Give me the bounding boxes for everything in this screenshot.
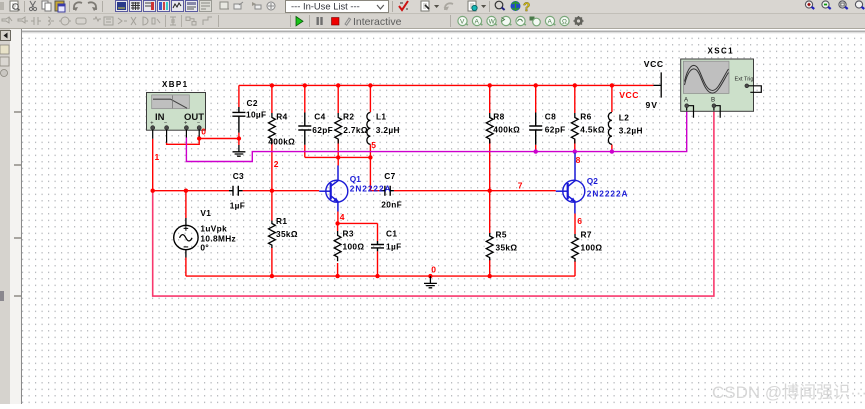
wire node1 horizontal [153, 139, 229, 191]
svg-text:R3: R3 [343, 229, 354, 239]
source V1 [174, 218, 198, 258]
resistor R6 [571, 113, 578, 144]
svg-text:C1: C1 [386, 229, 397, 239]
inductor L2 [608, 113, 612, 145]
svg-text:--- In-Use List ---: --- In-Use List --- [291, 1, 360, 12]
svg-text:1: 1 [155, 152, 160, 162]
row1 framed icon group [116, 1, 276, 12]
label R8 [493, 112, 520, 135]
svg-text:Q2: Q2 [587, 176, 598, 186]
junction top rail L2 [610, 83, 614, 87]
svg-text:4.5kΩ: 4.5kΩ [580, 124, 605, 134]
svg-text:R4: R4 [276, 112, 287, 122]
wire net VCC top rail [239, 84, 654, 86]
label R7 [581, 230, 603, 253]
svg-text:L1: L1 [376, 112, 386, 122]
junction node4 emitter [335, 221, 339, 225]
svg-text:W: W [489, 19, 496, 26]
svg-text:V: V [460, 19, 465, 26]
wire R5 leads [489, 191, 491, 276]
capacitor C3 [229, 186, 243, 196]
row2 component icons (gray) [2, 17, 160, 25]
resistor R4 [269, 113, 276, 144]
svg-text:3.2µH: 3.2µH [619, 125, 643, 135]
label R1 [276, 216, 298, 239]
junction node5 L1 [368, 155, 372, 159]
junction node1 XBP IN [151, 189, 155, 193]
run controls [290, 15, 291, 27]
junction top rail R6 [573, 83, 577, 87]
junction top rail C8 [534, 83, 538, 87]
wire R7 leads [574, 214, 576, 277]
label R3 [343, 229, 365, 252]
wire L2 leads [611, 85, 613, 151]
svg-text:C2: C2 [247, 98, 258, 108]
svg-text:L2: L2 [619, 112, 629, 122]
label R2 [343, 112, 368, 135]
In-Use List combo [286, 1, 389, 13]
label C7 [381, 171, 402, 209]
svg-text:20nF: 20nF [381, 199, 402, 209]
wire Q1 collector red part [337, 157, 339, 165]
svg-text:2N2222A: 2N2222A [350, 183, 392, 193]
svg-text:+: + [184, 120, 187, 126]
svg-text:C3: C3 [233, 171, 244, 181]
svg-text:R7: R7 [581, 230, 592, 240]
wire V1 leads [185, 191, 187, 276]
svg-text:35kΩ: 35kΩ [276, 229, 298, 239]
svg-text:Ω: Ω [562, 19, 567, 26]
wire R4 vertical [271, 85, 273, 190]
junction bus R3 [335, 274, 339, 278]
instrument XBP1 bode plotter [147, 93, 206, 143]
resistor R3 [334, 231, 341, 261]
svg-text:XBP1: XBP1 [162, 80, 189, 89]
svg-text:35kΩ: 35kΩ [496, 243, 518, 253]
wire R6 leads [574, 85, 576, 151]
svg-text:0°: 0° [200, 243, 209, 253]
resistor R1 [269, 221, 276, 249]
junction top rail R4 [270, 83, 274, 87]
label Q2 [587, 176, 629, 199]
svg-text:R5: R5 [496, 230, 507, 240]
svg-text:0: 0 [431, 264, 436, 274]
junction top rail R2 [336, 83, 340, 87]
wire L1 leads [369, 85, 371, 157]
svg-text:R6: R6 [580, 112, 591, 122]
svg-text:62pF: 62pF [312, 125, 333, 135]
label R5 [496, 230, 518, 253]
svg-text:6: 6 [577, 216, 582, 226]
instrument XSC1 oscilloscope [681, 59, 762, 118]
svg-text:1uVpk: 1uVpk [200, 223, 227, 233]
wire R8 vertical [489, 85, 491, 190]
label C2 [246, 98, 266, 120]
left panel strip [0, 29, 22, 404]
svg-text:V1: V1 [200, 208, 211, 218]
label L2 [619, 112, 643, 135]
svg-text:C7: C7 [384, 171, 395, 181]
wire pink node1 to scope B [153, 111, 714, 297]
junction node7 R8 [488, 189, 492, 193]
junction node0 C2 [237, 136, 241, 140]
svg-text:R1: R1 [276, 216, 287, 226]
capacitor C1 [371, 241, 384, 251]
svg-text:C8: C8 [545, 112, 556, 122]
svg-text:1µF: 1µF [230, 200, 246, 210]
label Q1 [350, 174, 392, 194]
svg-text:−: − [197, 120, 200, 126]
junction net8 R6 Q2 collector [573, 149, 577, 153]
label R4 [268, 112, 295, 147]
junction bus C1 [375, 274, 379, 278]
wire C1 bottom lead [377, 251, 379, 276]
svg-text:5: 5 [371, 140, 376, 150]
transistor Q2 [556, 153, 585, 214]
svg-text:2.7kΩ: 2.7kΩ [343, 125, 368, 135]
junction net8 L2 [610, 149, 614, 153]
resistor R8 [486, 113, 493, 144]
ground at bus [424, 276, 437, 288]
svg-text:A: A [548, 19, 553, 26]
svg-text:2N2222A: 2N2222A [587, 189, 629, 199]
row1 left icons [0, 1, 103, 12]
wire node0 stub XBP1 [167, 133, 239, 145]
VCC power symbol [654, 72, 662, 97]
capacitor C4 [298, 113, 311, 145]
inductor L1 [367, 113, 371, 145]
svg-text:VCC: VCC [619, 90, 639, 100]
junction bus R5 [488, 274, 492, 278]
resistor R7 [572, 234, 579, 262]
transistor Q1 [319, 166, 348, 212]
CSDN watermark [712, 378, 865, 398]
svg-text:100Ω: 100Ω [581, 243, 603, 253]
label C8 [545, 112, 566, 135]
instrument probe icons [450, 15, 451, 27]
label L1 [376, 112, 400, 135]
wire node2 C3 to Q1 base [243, 190, 320, 192]
junction node1 V1 [184, 189, 188, 193]
wire R2 leads [337, 85, 339, 157]
row1 right icons [399, 0, 530, 14]
wire R3 leads [337, 223, 339, 276]
junction bus ground [428, 274, 432, 278]
svg-text:XSC1: XSC1 [708, 47, 735, 56]
svg-text:B: B [711, 97, 715, 104]
junction top rail R8 [488, 83, 492, 87]
svg-text:9V: 9V [646, 100, 659, 110]
capacitor C2 [232, 85, 245, 132]
svg-text:400kΩ: 400kΩ [268, 136, 295, 146]
svg-text:C4: C4 [314, 112, 325, 122]
svg-text:0: 0 [201, 127, 206, 137]
capacitor C7 [381, 186, 394, 196]
svg-text:8: 8 [576, 155, 581, 165]
wire Q1 emitter to node4 [338, 212, 378, 242]
junction node5 R2 [336, 155, 340, 159]
row1 far-right zoom icons [805, 1, 864, 9]
wire net8 magenta XBP1 OUT to scope A [186, 111, 686, 162]
junction top rail C4 [303, 83, 307, 87]
svg-text:1µF: 1µF [386, 241, 402, 251]
svg-text:R2: R2 [343, 112, 354, 122]
capacitor C8 [529, 113, 542, 145]
svg-text:A: A [475, 19, 480, 26]
svg-text:R8: R8 [493, 112, 504, 122]
svg-text:400kΩ: 400kΩ [493, 124, 520, 134]
svg-text:10µF: 10µF [246, 110, 266, 120]
ground under C2 [233, 145, 246, 156]
svg-text:Ext Trig: Ext Trig [735, 76, 754, 82]
svg-text:−: − [164, 120, 167, 126]
junction bus R1 [270, 274, 274, 278]
resistor R5 [486, 233, 493, 260]
svg-text:62pF: 62pF [545, 124, 566, 134]
svg-text:VCC: VCC [644, 59, 664, 69]
svg-text:100Ω: 100Ω [343, 241, 365, 251]
label R6 [580, 112, 605, 135]
svg-text:Q1: Q1 [350, 174, 361, 184]
wire C8 leads [535, 85, 537, 151]
label C4 [312, 112, 333, 135]
wire node7 C7 to Q2 base [394, 190, 556, 192]
svg-text:7: 7 [518, 181, 523, 191]
svg-text:Interactive: Interactive [353, 16, 402, 28]
toolbar [0, 0, 865, 29]
label V1 [200, 208, 236, 252]
junction node2 R4 [270, 189, 274, 193]
svg-text:?: ? [523, 0, 530, 14]
svg-text:+: + [150, 120, 153, 126]
junction top rail L1 [368, 83, 372, 87]
label C3 [230, 171, 246, 210]
svg-text:4: 4 [340, 212, 345, 222]
wire C4 leads + node5 [305, 85, 381, 190]
label C1 [386, 229, 402, 252]
svg-text:2: 2 [274, 159, 279, 169]
junction node0 OUT- [197, 136, 201, 140]
junction net8 C8 [534, 149, 538, 153]
resistor R2 [335, 113, 342, 144]
svg-text:3.2µH: 3.2µH [376, 125, 400, 135]
wire R1 leads [271, 191, 273, 276]
wire ground bus net 0 [186, 275, 575, 277]
